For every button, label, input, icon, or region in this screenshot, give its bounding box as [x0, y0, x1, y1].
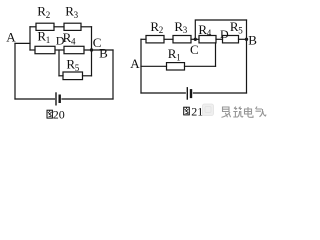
svg-text:A: A [130, 56, 140, 71]
svg-text:C: C [190, 42, 199, 57]
svg-text:B: B [248, 32, 257, 47]
svg-text:2: 2 [46, 10, 51, 20]
svg-text:2: 2 [159, 25, 164, 35]
svg-text:3: 3 [183, 25, 188, 35]
svg-text:21: 21 [191, 104, 203, 118]
svg-text:3: 3 [74, 10, 79, 20]
svg-text:1: 1 [176, 52, 181, 62]
svg-text:5: 5 [75, 63, 80, 73]
svg-text:D: D [220, 27, 229, 41]
svg-text:5: 5 [238, 25, 243, 35]
svg-text:4: 4 [207, 28, 212, 38]
svg-text:A: A [6, 29, 16, 44]
svg-text:B: B [99, 46, 108, 61]
svg-text:1: 1 [46, 35, 51, 45]
svg-text:20: 20 [53, 107, 65, 121]
svg-text:4: 4 [71, 37, 76, 47]
